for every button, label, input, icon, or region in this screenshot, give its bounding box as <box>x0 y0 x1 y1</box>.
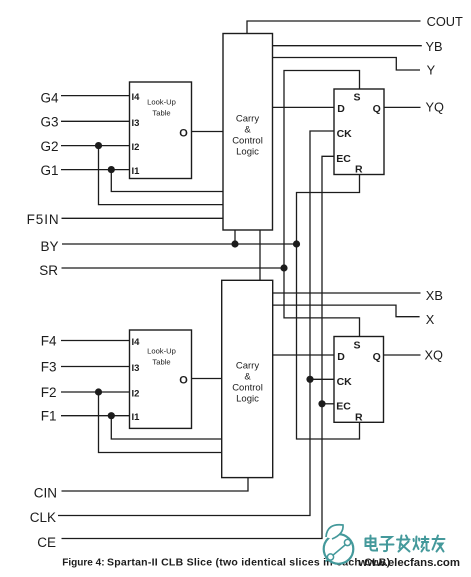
svg-text:Y: Y <box>427 62 436 77</box>
wire XB <box>273 292 421 294</box>
wire BY stub to carry bottom <box>234 230 236 244</box>
wire X <box>273 305 420 317</box>
wire EC2 branch <box>322 403 334 405</box>
svg-text:I1: I1 <box>132 412 141 423</box>
svg-text:Logic: Logic <box>236 147 259 158</box>
svg-text:Control: Control <box>232 383 263 394</box>
svg-text:EC: EC <box>336 153 351 165</box>
svg-text:Carry: Carry <box>236 361 259 372</box>
svg-text:F5IN: F5IN <box>27 212 60 227</box>
wire SR to S pins <box>284 71 360 337</box>
wire F1 <box>61 415 130 417</box>
svg-text:SR: SR <box>39 263 58 278</box>
wire O1 to carry <box>192 131 224 133</box>
wire COUT <box>247 21 421 34</box>
svg-text:Carry: Carry <box>236 114 259 125</box>
svg-text:&: & <box>244 372 251 383</box>
junction G1 <box>108 166 115 173</box>
wire F2 <box>61 391 130 393</box>
junction G2 <box>95 142 102 149</box>
wire G1 <box>61 169 130 171</box>
svg-text:CK: CK <box>337 376 353 388</box>
wire F2 tap to carry <box>99 392 222 453</box>
svg-text:X: X <box>426 312 435 327</box>
wire G4 <box>61 95 130 97</box>
svg-text:D: D <box>337 103 345 115</box>
svg-text:CE: CE <box>37 535 56 550</box>
carry U2 box <box>223 34 273 231</box>
LUT U1 box <box>130 82 192 179</box>
svg-text:www.elecfans.com: www.elecfans.com <box>358 557 461 569</box>
svg-text:O: O <box>179 128 188 140</box>
svg-text:I4: I4 <box>132 337 141 348</box>
LUT U4 box <box>130 330 192 428</box>
svg-text:F1: F1 <box>41 409 57 424</box>
svg-text:F2: F2 <box>41 385 57 400</box>
svg-text:XQ: XQ <box>425 348 444 363</box>
flip-flop U3 box <box>334 89 384 175</box>
junction CLK-CK2 <box>306 376 313 383</box>
wire carry1 to carry2 <box>259 230 261 280</box>
wire EC1 / CE vertical <box>62 156 335 538</box>
svg-text:I1: I1 <box>132 166 141 177</box>
svg-text:O: O <box>179 375 188 387</box>
wire G1 tap to carry <box>111 170 223 192</box>
watermark chinese char dian <box>366 536 378 551</box>
svg-text:Logic: Logic <box>236 394 259 405</box>
watermark chinese char fa <box>397 536 410 552</box>
svg-text:EC: EC <box>336 400 351 412</box>
svg-text:Q: Q <box>373 351 381 363</box>
wire F5IN <box>62 217 224 219</box>
watermark logo <box>324 525 354 564</box>
svg-text:F4: F4 <box>41 333 57 348</box>
svg-text:I3: I3 <box>132 118 140 129</box>
svg-text:CK: CK <box>337 128 353 140</box>
svg-text:I2: I2 <box>132 142 140 153</box>
wire BY to R pins <box>297 175 360 440</box>
wire CK2 branch <box>310 378 334 380</box>
wire YQ <box>384 106 421 108</box>
svg-text:I2: I2 <box>132 389 140 400</box>
svg-text:G3: G3 <box>40 115 58 130</box>
junction F2 <box>95 388 102 395</box>
junction BY-R <box>293 240 300 247</box>
svg-text:YB: YB <box>426 39 443 54</box>
junction CE-EC2 <box>318 400 325 407</box>
wire D2 <box>273 354 334 356</box>
svg-text:S: S <box>353 92 360 104</box>
wire CIN <box>62 478 249 491</box>
wire O2 to carry <box>192 378 222 380</box>
wire BY <box>62 243 297 245</box>
wire SR <box>62 267 285 269</box>
watermark chinese char zi <box>380 537 394 551</box>
svg-text:COUT: COUT <box>427 14 463 29</box>
junction BY-carry <box>231 240 238 247</box>
svg-text:Look-Up: Look-Up <box>147 98 176 107</box>
wire F3 <box>61 366 130 368</box>
svg-text:I3: I3 <box>132 363 140 374</box>
wire F1 tap to carry <box>111 416 221 439</box>
flip-flop U6 box <box>334 337 384 423</box>
wire CK1 / CLK vertical <box>58 131 334 516</box>
svg-text:Control: Control <box>232 136 263 147</box>
watermark chinese char shao <box>414 537 430 552</box>
svg-text:Table: Table <box>152 358 170 367</box>
svg-text:G1: G1 <box>40 163 58 178</box>
svg-text:R: R <box>355 411 363 423</box>
wire G2 <box>61 145 130 147</box>
svg-text:Figure 4:: Figure 4: <box>62 558 104 569</box>
svg-text:XB: XB <box>426 288 443 303</box>
junction SR-S <box>280 264 287 271</box>
wire YB <box>273 45 422 47</box>
svg-text:G2: G2 <box>40 139 58 154</box>
svg-text:I4: I4 <box>132 92 141 103</box>
watermark chinese text <box>366 536 445 552</box>
carry U5 box <box>222 280 273 477</box>
svg-text:Look-Up: Look-Up <box>147 347 176 356</box>
svg-text:CLK: CLK <box>30 510 56 525</box>
svg-text:F3: F3 <box>41 359 57 374</box>
svg-text:D: D <box>337 351 345 363</box>
svg-text:BY: BY <box>40 239 58 254</box>
watermark chinese char you <box>433 536 445 552</box>
wire G2 tap to carry <box>99 146 224 205</box>
junction F1 <box>108 412 115 419</box>
wire G3 <box>61 120 130 122</box>
svg-text:YQ: YQ <box>426 100 445 115</box>
svg-text:Table: Table <box>152 109 170 118</box>
wire F4 <box>61 340 130 342</box>
wire Y <box>273 58 421 71</box>
svg-text:&: & <box>244 125 251 136</box>
wire D1 <box>273 106 335 108</box>
svg-text:S: S <box>353 340 360 352</box>
svg-text:CIN: CIN <box>34 485 57 500</box>
svg-text:G4: G4 <box>40 90 59 105</box>
svg-text:R: R <box>355 163 363 175</box>
svg-text:Q: Q <box>373 103 381 115</box>
wire XQ <box>384 354 421 356</box>
